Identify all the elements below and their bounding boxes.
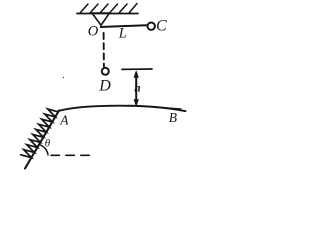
rod L from O to ball C [101, 25, 147, 27]
svg-text:θ: θ [45, 138, 51, 150]
angle arc [40, 145, 49, 155]
ceiling hatch marks [80, 4, 137, 14]
svg-text:h: h [134, 83, 140, 95]
svg-text:D: D [98, 78, 111, 95]
svg-text:B: B [169, 110, 177, 125]
svg-text:A: A [59, 113, 69, 128]
dashed horizontal angle reference [51, 154, 90, 156]
height reference line [122, 68, 152, 70]
height arrow shaft [135, 73, 137, 105]
svg-text:L: L [118, 26, 127, 42]
ball D [102, 68, 109, 75]
ground line A-B [59, 106, 186, 111]
ball C [148, 23, 155, 30]
svg-text:C: C [156, 18, 167, 35]
dashed vertical string O to D [103, 33, 105, 67]
down arrowhead [134, 99, 139, 106]
svg-text:O: O [88, 24, 99, 40]
ceiling line [77, 13, 138, 15]
zigzag hatching on incline [21, 109, 58, 158]
scan speck [63, 77, 64, 78]
incline [25, 111, 59, 169]
pivot triangle [92, 13, 110, 25]
up arrowhead [134, 70, 139, 77]
ground line overdraw [162, 108, 181, 109]
arrowheads of h dimension [134, 70, 139, 106]
